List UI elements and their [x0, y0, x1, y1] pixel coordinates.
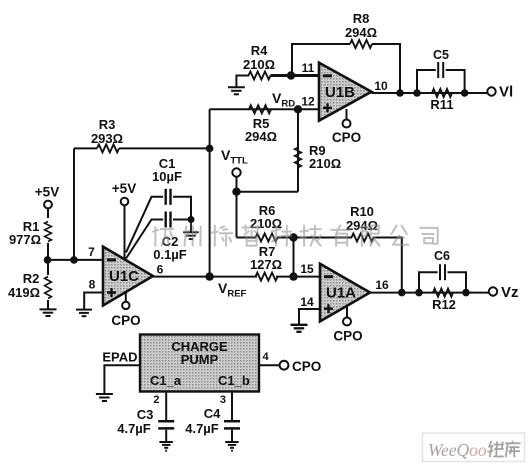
svg-text:2: 2 — [153, 394, 159, 406]
ground at C3 — [159, 442, 173, 451]
node pin7 junction — [70, 256, 78, 264]
svg-text:977Ω: 977Ω — [9, 232, 41, 247]
terminal VTTL — [221, 147, 248, 192]
node C1 C2 ground junction — [188, 216, 195, 232]
pin 3 label — [220, 394, 226, 406]
svg-text:419Ω: 419Ω — [8, 285, 40, 300]
ground at pin 14 — [291, 325, 308, 332]
svg-text:12: 12 — [301, 95, 315, 109]
ground at pin 8 — [76, 310, 92, 317]
svg-text:210Ω: 210Ω — [250, 216, 282, 231]
terminal V2 — [489, 284, 519, 301]
capacitor C6 — [419, 249, 466, 293]
svg-text:0.1µF: 0.1µF — [153, 247, 187, 262]
node U1B output feedback junction — [396, 89, 404, 97]
svg-text:R10: R10 — [350, 204, 374, 219]
vertical wire VREF node — [209, 109, 211, 276]
EPAD pin — [102, 350, 140, 395]
pin 4 CPO output — [259, 351, 321, 374]
capacitor C3 — [117, 392, 174, 443]
svg-text:8: 8 — [89, 278, 96, 292]
svg-text:CPO: CPO — [332, 130, 361, 145]
capacitor C2 — [126, 212, 191, 263]
charge pump U2 box — [140, 335, 259, 392]
svg-text:10: 10 — [374, 79, 388, 93]
wire to U1C pin 7 — [48, 259, 104, 261]
svg-text:294Ω: 294Ω — [345, 25, 377, 40]
pin 12 label — [301, 95, 315, 109]
ground at C4 — [225, 442, 239, 451]
terminal +5V at U1C — [112, 181, 136, 205]
terminal V1 — [487, 84, 513, 101]
op-amp U1B — [319, 63, 372, 121]
pin 2 label — [153, 394, 159, 406]
resistor R9 — [295, 109, 342, 191]
svg-text:4.7µF: 4.7µF — [117, 421, 151, 436]
svg-text:U1B: U1B — [325, 84, 355, 101]
svg-text:+5V: +5V — [35, 185, 59, 200]
svg-text:R12: R12 — [432, 297, 456, 312]
wire junction down to pin15 — [293, 238, 295, 277]
svg-text:16: 16 — [375, 278, 389, 292]
wire R5 VREF to VRD — [210, 108, 319, 110]
node C6 left junction — [415, 289, 423, 297]
svg-text:6: 6 — [157, 263, 164, 277]
resistor R3 — [74, 117, 210, 152]
svg-text:Vz: Vz — [501, 284, 519, 301]
svg-text:14: 14 — [300, 295, 314, 309]
op-amp U1C — [103, 247, 153, 306]
node C5 left junction — [413, 89, 421, 97]
resistor R5 — [245, 105, 277, 144]
ground under R2 — [40, 309, 57, 316]
wire +5V to U1C supply — [124, 205, 126, 258]
resistor R6 — [237, 203, 294, 242]
svg-text:PUMP: PUMP — [181, 352, 219, 367]
svg-text:11: 11 — [302, 61, 315, 75]
pin 6 label — [157, 263, 164, 277]
wire U1A pin 14 to ground — [299, 309, 320, 325]
svg-text:294Ω: 294Ω — [245, 129, 277, 144]
capacitor C4 — [185, 392, 240, 443]
svg-text:R4: R4 — [251, 43, 268, 58]
svg-text:C3: C3 — [137, 407, 154, 422]
svg-text:R8: R8 — [353, 11, 370, 26]
pin 10 label — [374, 79, 388, 93]
watermark chinese text — [153, 226, 438, 246]
wire VTTL to R9 bottom — [237, 191, 299, 193]
node R6 R10 junction — [289, 233, 297, 241]
wire R3 down to pin7 node — [73, 148, 75, 260]
svg-text:210Ω: 210Ω — [309, 156, 341, 171]
wire U1C pin 8 to ground — [84, 293, 103, 310]
op-amp U1A — [320, 264, 370, 322]
CPO pin U1A — [333, 306, 362, 344]
CPO pin U1C — [111, 292, 140, 328]
node VTTL junction — [232, 188, 240, 196]
svg-text:CPO: CPO — [333, 329, 362, 344]
capacitor C1 — [126, 156, 191, 253]
node pin11 junction — [287, 71, 295, 79]
pin 15 label — [300, 262, 314, 276]
resistor R1 — [9, 209, 51, 260]
wire VREF — [153, 276, 320, 278]
svg-text:C1_b: C1_b — [218, 373, 250, 388]
watermark weeqoo — [423, 433, 525, 462]
svg-text:C5: C5 — [433, 48, 449, 62]
resistor R12 — [432, 289, 456, 312]
node pin15 junction — [289, 272, 297, 280]
wire U1B output — [372, 92, 488, 94]
svg-text:15: 15 — [300, 262, 314, 276]
svg-text:WeeQoo: WeeQoo — [428, 440, 487, 460]
resistor R4 — [243, 43, 275, 80]
svg-text:CPO: CPO — [111, 313, 140, 328]
node C6 right junction — [462, 289, 470, 297]
svg-text:R11: R11 — [430, 97, 453, 112]
svg-text:U1C: U1C — [109, 268, 139, 285]
ground at EPAD — [96, 394, 113, 401]
svg-text:4.7µF: 4.7µF — [185, 421, 219, 436]
resistor R8 — [345, 11, 377, 48]
terminal +5V left — [35, 185, 59, 209]
wire R8 feedback loop — [292, 44, 400, 93]
svg-text:7: 7 — [88, 245, 95, 259]
CPO pin U1B — [332, 109, 361, 145]
node R3 joins VREF — [206, 145, 214, 153]
ground at R4 input — [228, 76, 249, 95]
svg-text:4: 4 — [263, 351, 270, 363]
pin 7 label — [88, 245, 95, 259]
svg-text:CPO: CPO — [292, 359, 321, 374]
wire U1A output — [370, 292, 489, 294]
svg-text:C1_a: C1_a — [150, 373, 182, 388]
resistor R2 — [8, 260, 51, 309]
pin 11 label — [302, 61, 315, 75]
node VREF — [205, 272, 246, 299]
svg-text:R2: R2 — [23, 271, 40, 286]
svg-text:EPAD: EPAD — [102, 350, 137, 365]
resistor R10 — [294, 204, 402, 293]
pin 14 label — [300, 295, 314, 309]
svg-text:210Ω: 210Ω — [243, 57, 275, 72]
wire R4 to U1B pin 11 — [271, 74, 320, 77]
pin 16 label — [375, 278, 389, 292]
svg-text:Vl: Vl — [499, 84, 513, 101]
svg-text:127Ω: 127Ω — [250, 257, 282, 272]
node C5 right junction — [461, 89, 469, 97]
ground at C1 C2 — [183, 232, 199, 239]
svg-text:3: 3 — [220, 394, 226, 406]
wire VTTL down to R6 — [236, 192, 238, 238]
svg-text:10µF: 10µF — [152, 169, 182, 184]
svg-text:C6: C6 — [434, 249, 450, 263]
node R1-R2 junction — [44, 256, 52, 264]
node VRD — [272, 90, 302, 114]
svg-text:C4: C4 — [204, 406, 221, 421]
pin 8 label — [89, 278, 96, 292]
svg-text:R3: R3 — [99, 117, 116, 132]
resistor R7 — [250, 244, 282, 281]
capacitor C5 — [417, 48, 465, 93]
svg-text:+5V: +5V — [112, 181, 136, 196]
node U1A feedback junction — [398, 289, 406, 297]
svg-text:293Ω: 293Ω — [91, 131, 123, 146]
svg-text:U1A: U1A — [326, 285, 356, 302]
resistor R11 — [430, 89, 453, 112]
